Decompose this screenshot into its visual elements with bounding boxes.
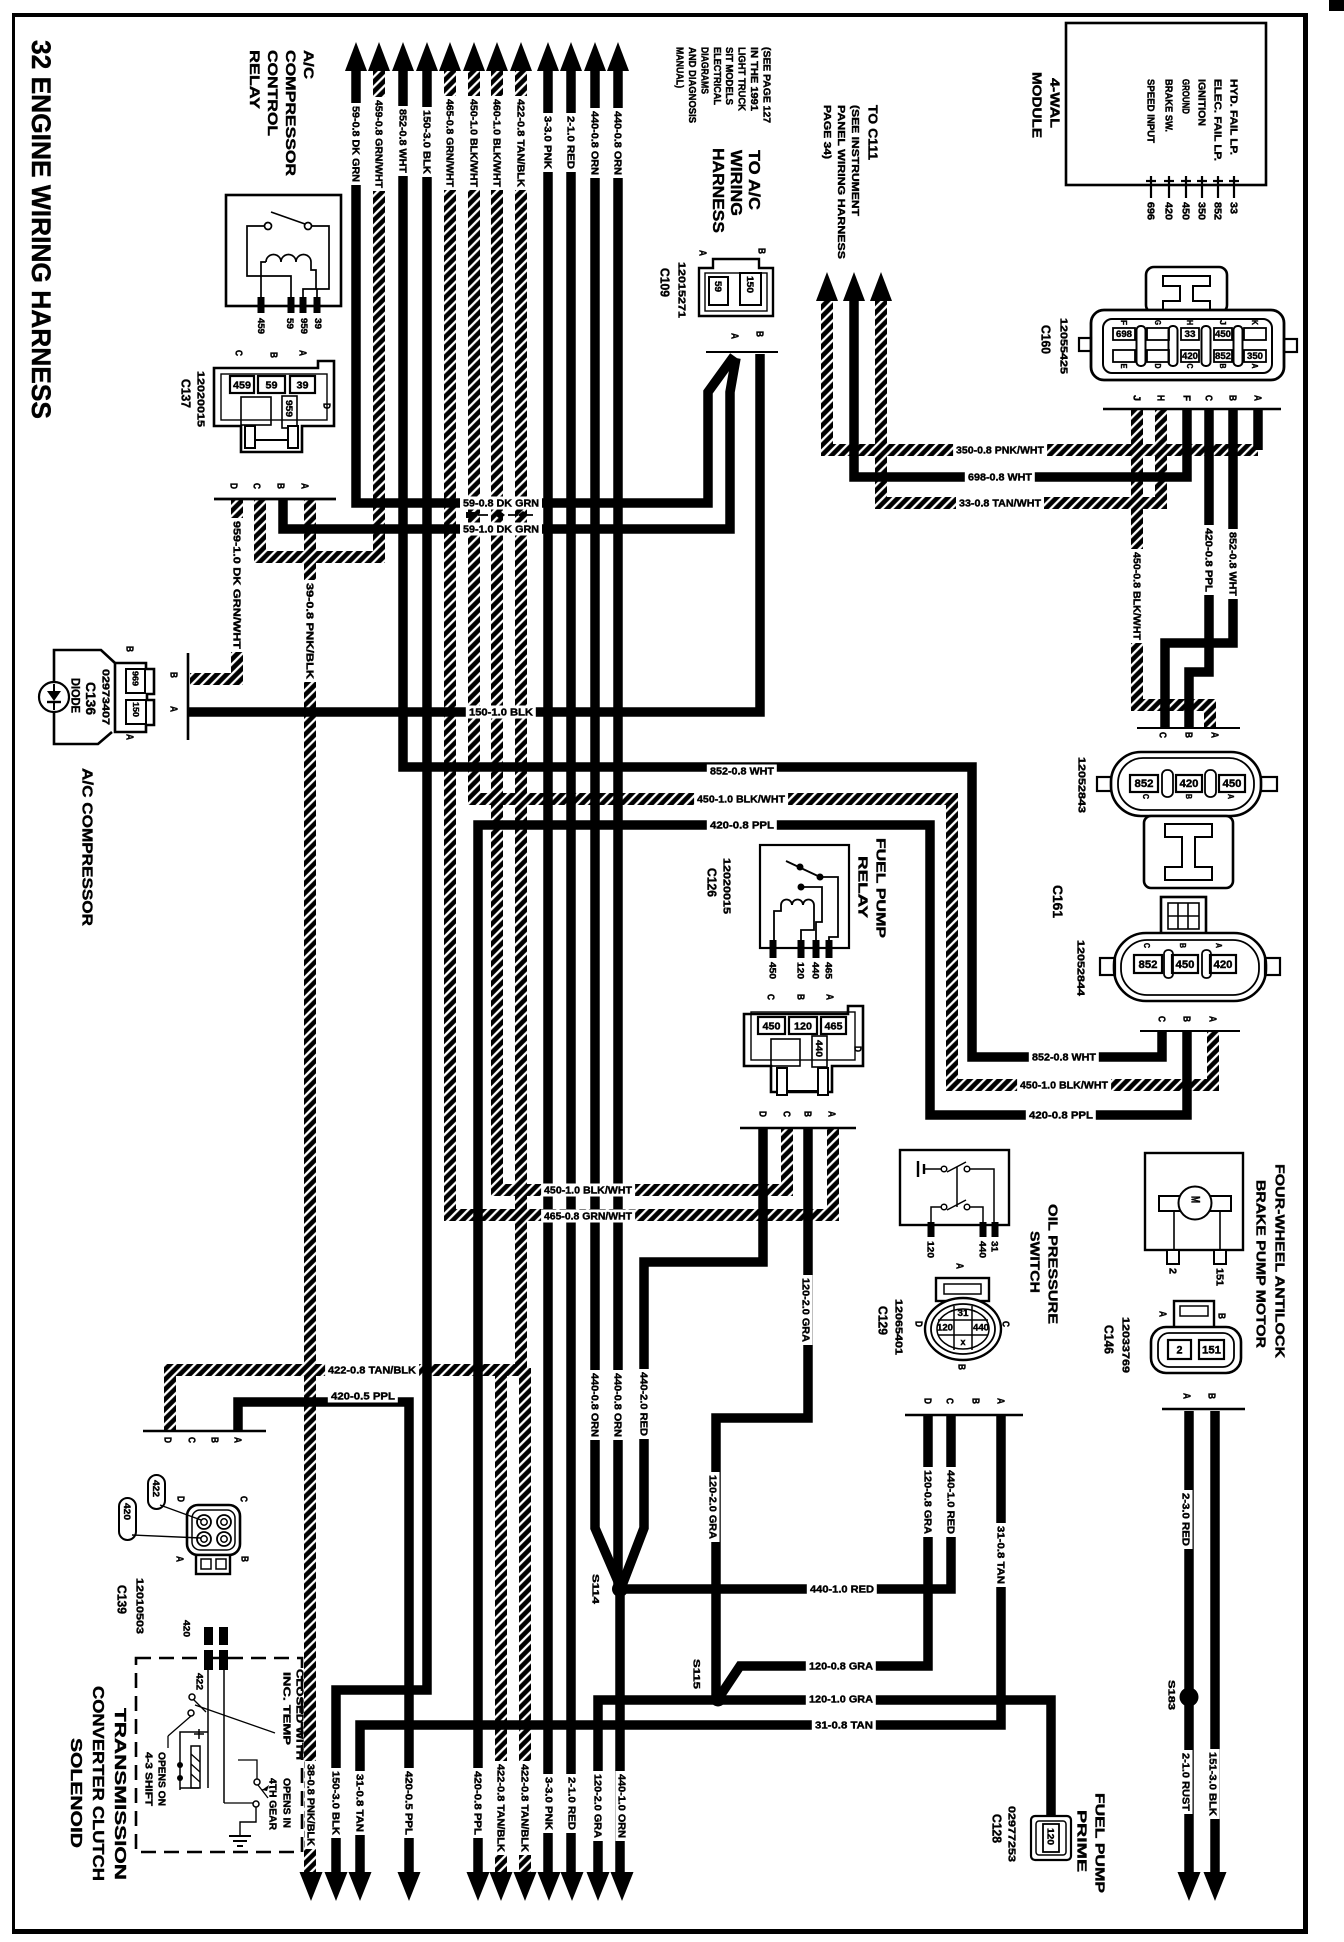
svg-text:12015271: 12015271 [675, 262, 686, 319]
svg-text:S183: S183 [1166, 1680, 1177, 1710]
svg-text:440: 440 [813, 1040, 824, 1057]
svg-text:59-0.8 DK GRN: 59-0.8 DK GRN [463, 499, 539, 510]
svg-text:C129: C129 [876, 1306, 890, 1335]
label 420-0.8 PPL on wire [1203, 525, 1216, 595]
C126 cavity 465 [821, 1017, 846, 1034]
svg-text:422-0.8 TAN/BLK: 422-0.8 TAN/BLK [494, 1764, 505, 1853]
C136 cavity 969 [126, 669, 145, 693]
wire 120-0.8 GRA S115 to C129 D [718, 1415, 928, 1699]
svg-text:A: A [167, 706, 178, 712]
svg-text:450: 450 [1215, 329, 1231, 339]
svg-text:959: 959 [283, 400, 294, 417]
svg-text:59: 59 [266, 379, 278, 391]
label 3-3.0 PNK on wire [543, 1774, 556, 1833]
relay pin stub 816 [813, 940, 820, 958]
svg-text:440-2.0 RED: 440-2.0 RED [637, 1372, 648, 1436]
C137 cavity 959 [282, 396, 297, 428]
svg-text:450: 450 [1176, 959, 1195, 971]
label 440-1.0 RED on wire [807, 1583, 877, 1596]
svg-text:12010503: 12010503 [133, 1578, 144, 1635]
connector C129 tab [936, 1278, 989, 1301]
wire 440-1.0 ORN to arrow [615, 1586, 625, 1876]
svg-text:465-0.8 GRN/WHT: 465-0.8 GRN/WHT [544, 1212, 632, 1223]
12052843 cavity 852 [1130, 775, 1158, 792]
svg-text:460-1.0 BLK/WHT: 460-1.0 BLK/WHT [490, 99, 501, 187]
svg-text:422: 422 [194, 1673, 205, 1690]
svg-text:C136: C136 [83, 682, 99, 715]
12052843 cavity 450 [1219, 775, 1245, 792]
svg-text:G: G [1153, 320, 1162, 325]
arrow up bus 12 [607, 42, 629, 71]
svg-text:D: D [1153, 364, 1162, 369]
pin tick 696 [1150, 176, 1152, 198]
C160 slot [1137, 326, 1146, 366]
C136 connector body [115, 663, 154, 732]
svg-text:A: A [123, 734, 134, 740]
wire 151-3.0 BLK [1210, 1411, 1220, 1876]
svg-text:350: 350 [1247, 351, 1263, 361]
connector 12052844 oval [1114, 933, 1266, 1001]
arrow up to C111 at x=854 [843, 272, 865, 301]
svg-text:B: B [1215, 1313, 1226, 1319]
arrow up bus 2 [368, 42, 390, 71]
svg-text:C126: C126 [705, 868, 719, 897]
relay fuel pump relay box [760, 845, 849, 948]
label 420-0.8 PPL on wire [472, 1768, 485, 1838]
svg-text:C146: C146 [1102, 1325, 1116, 1354]
svg-text:x: x [961, 1337, 966, 1347]
label 59-0.8 DK GRN on wire [460, 497, 542, 510]
svg-text:A: A [1250, 364, 1259, 369]
svg-text:IGNITION: IGNITION [1195, 79, 1206, 126]
label 3-3.0 PNK on wire [542, 113, 555, 172]
label 31-0.8 TAN on wire [995, 1523, 1008, 1587]
svg-text:ELEC. FAIL LP.: ELEC. FAIL LP. [1211, 79, 1222, 161]
svg-text:420-0.8 PPL: 420-0.8 PPL [1029, 1111, 1093, 1122]
svg-text:151: 151 [1213, 1268, 1224, 1286]
svg-text:B: B [1205, 1393, 1216, 1399]
wire 422-0.8 TAN/BLK branch [495, 1370, 507, 1876]
svg-text:31-0.8 TAN: 31-0.8 TAN [994, 1526, 1005, 1584]
svg-text:422-0.8 TAN/BLK: 422-0.8 TAN/BLK [514, 99, 525, 188]
label 440-0.8 ORN on wire [612, 1370, 625, 1440]
svg-text:B: B [238, 1556, 249, 1562]
wire 120-1.0 GRA S115 to fuel pump prime [598, 1700, 1051, 1876]
svg-text:C: C [1142, 943, 1152, 948]
svg-text:D: D [174, 1496, 185, 1502]
svg-text:852: 852 [1215, 351, 1231, 361]
C126 empty cavity [771, 1039, 800, 1066]
svg-text:12020015: 12020015 [720, 858, 731, 915]
svg-text:C: C [237, 1496, 248, 1502]
connector C126 body [744, 1006, 863, 1092]
pin tick 33 [1233, 176, 1235, 198]
arrow up to C111 at x=881 [870, 272, 892, 301]
svg-text:A: A [696, 250, 707, 256]
svg-text:698: 698 [1116, 329, 1132, 339]
svg-text:39: 39 [313, 318, 323, 329]
svg-text:D: D [921, 1398, 932, 1404]
svg-text:12020015: 12020015 [194, 371, 205, 428]
relay pin stub 801 [798, 940, 805, 958]
label 450-0.8 BLK/WHT on wire [1131, 549, 1144, 643]
label 150-1.0 BLK on wire [466, 706, 536, 719]
svg-text:B: B [755, 248, 766, 254]
relay pin stub 773 [770, 940, 777, 958]
svg-text:852: 852 [1135, 778, 1154, 790]
svg-text:C: C [780, 1111, 791, 1117]
C137 cavity 39 [290, 376, 315, 393]
svg-text:C128: C128 [990, 1814, 1004, 1843]
C137 cavity 459 [230, 376, 254, 393]
label 2-1.0 RED on wire [566, 1774, 579, 1833]
arrow down at x=525 [514, 1872, 537, 1901]
svg-text:D: D [851, 1046, 862, 1052]
svg-text:150-1.0 BLK: 150-1.0 BLK [469, 708, 534, 719]
svg-text:02977253: 02977253 [1005, 1806, 1016, 1863]
C126 terminal bar [740, 1127, 856, 1130]
svg-text:WIRING: WIRING [727, 150, 744, 216]
C109 cavity 59 [709, 277, 728, 305]
connector C139 icon [187, 1505, 240, 1555]
svg-text:A: A [825, 1111, 836, 1117]
svg-text:C109: C109 [658, 268, 672, 297]
svg-text:B: B [1182, 732, 1193, 738]
label 151-3.0 BLK on wire [1207, 1749, 1220, 1819]
svg-text:A: A [1206, 1016, 1217, 1022]
svg-text:SOLENOID: SOLENOID [67, 1738, 84, 1848]
wire 420-0.8 PPL C160 C to C161 B [1189, 409, 1209, 727]
label 420-0.5 PPL on wire [328, 1390, 398, 1403]
wire 420-0.8 PPL C161 B to bottom arrow [478, 825, 1187, 1876]
12052843 cavity 420 [1176, 775, 1202, 792]
svg-text:A: A [1214, 943, 1224, 948]
svg-text:PANEL WIRING HARNESS: PANEL WIRING HARNESS [835, 105, 847, 259]
wire 959-1.0 DK GRN/WHT C137 D to C136 B [190, 499, 237, 679]
svg-text:ELECTRICAL: ELECTRICAL [711, 47, 722, 105]
svg-text:J: J [1218, 320, 1227, 325]
wire 150-3.0 BLK bus [336, 62, 427, 1876]
svg-text:D: D [756, 1111, 767, 1117]
arrow down at x=572 [561, 1872, 584, 1901]
svg-text:B: B [1226, 395, 1237, 401]
connector C160 main body [1091, 310, 1284, 380]
svg-text:02973407: 02973407 [99, 669, 110, 726]
svg-text:852-0.8 WHT: 852-0.8 WHT [1032, 1053, 1096, 1064]
label 450-1.0 BLK/WHT on wire [694, 793, 788, 806]
svg-text:32 ENGINE WIRING HARNESS: 32 ENGINE WIRING HARNESS [26, 40, 56, 419]
C137 cavity 59 [258, 376, 285, 393]
C126 cavity 450 [758, 1017, 785, 1034]
C160 cavity 350 [1244, 350, 1266, 362]
svg-text:420: 420 [1182, 351, 1198, 361]
svg-text:150-3.0 BLK: 150-3.0 BLK [329, 1771, 340, 1836]
callout 422 oval [148, 1475, 165, 1509]
wire 465-0.8 GRN/WHT bus to relay A [450, 62, 833, 1215]
svg-text:450-0.8 BLK/WHT: 450-0.8 BLK/WHT [1130, 552, 1141, 640]
arrow up bus 3 [392, 42, 414, 71]
svg-text:420: 420 [121, 1503, 132, 1520]
label 465-0.8 GRN/WHT on wire [541, 1210, 635, 1223]
svg-text:HARNESS: HARNESS [709, 148, 726, 233]
arrow up bus 11 [584, 42, 606, 71]
svg-text:C: C [943, 1398, 954, 1404]
svg-text:151-3.0 BLK: 151-3.0 BLK [1206, 1752, 1217, 1817]
svg-text:852: 852 [1211, 202, 1222, 220]
wire 440-2.0 RED from relay D to S114 [621, 1128, 763, 1588]
wire 120-2.0 GRA relay B to S115 [716, 1128, 808, 1699]
svg-text:FUEL PUMP: FUEL PUMP [1092, 1793, 1107, 1893]
svg-text:420-0.8 PPL: 420-0.8 PPL [1202, 528, 1213, 592]
C161 terminal bar upper [1137, 727, 1240, 729]
svg-text:120: 120 [925, 1241, 936, 1258]
svg-text:959-1.0 DK GRN/WHT: 959-1.0 DK GRN/WHT [230, 521, 241, 649]
svg-text:C: C [250, 483, 261, 489]
motor pin stubs [1167, 1250, 1179, 1264]
relay pin stub 291 [288, 297, 295, 313]
svg-text:A: A [231, 1437, 242, 1443]
12052844 cavity 450 [1172, 955, 1198, 973]
label 59-1.0 DK GRN on wire [460, 523, 542, 536]
svg-text:C137: C137 [179, 379, 193, 408]
C160 cavity empty [1244, 328, 1266, 340]
label 2-1.0 RUST on wire [1180, 1750, 1193, 1814]
label 440-0.8 ORN on wire [612, 108, 625, 178]
svg-text:440: 440 [810, 962, 821, 979]
pin tick 450 [1185, 176, 1187, 198]
svg-text:59-0.8 DK GRN: 59-0.8 DK GRN [349, 106, 360, 182]
svg-text:A: A [728, 333, 739, 339]
svg-text:12065401: 12065401 [892, 1299, 903, 1356]
label 120-0.8 GRA on wire [806, 1660, 876, 1673]
label 460-1.0 BLK/WHT on wire [491, 96, 504, 190]
svg-text:422-0.8 TAN/BLK: 422-0.8 TAN/BLK [518, 1764, 529, 1853]
arrow up bus 6 [463, 42, 485, 71]
svg-text:BRAKE PUMP MOTOR: BRAKE PUMP MOTOR [1253, 1180, 1268, 1349]
svg-text:A: A [173, 1556, 184, 1562]
box transmission converter clutch solenoid (dashed) [136, 1658, 302, 1852]
svg-text:C: C [232, 350, 243, 356]
svg-text:150: 150 [131, 702, 141, 717]
svg-text:120-1.0 GRA: 120-1.0 GRA [809, 1695, 873, 1706]
label 420-0.5 PPL on wire [403, 1768, 416, 1838]
label 422-0.8 TAN/BLK on wire [495, 1761, 508, 1855]
svg-text:D: D [161, 1437, 172, 1443]
svg-text:H: H [1154, 395, 1165, 401]
label 120-0.8 GRA on wire [922, 1467, 935, 1537]
svg-text:350: 350 [1195, 202, 1206, 220]
label 31-0.8 TAN on wire [812, 1719, 876, 1732]
svg-text:B: B [123, 646, 134, 652]
svg-text:31: 31 [989, 1241, 1000, 1253]
splice S115 junction dot [711, 1692, 726, 1707]
svg-text:440-0.8 ORN: 440-0.8 ORN [588, 1373, 599, 1437]
svg-text:120: 120 [795, 962, 806, 979]
svg-text:420: 420 [181, 1620, 192, 1637]
svg-text:MODULE: MODULE [1029, 72, 1044, 138]
svg-text:B: B [274, 483, 285, 489]
svg-text:PRIME: PRIME [1074, 1810, 1089, 1872]
wire 3-3.0 PNK bus [543, 62, 553, 1876]
C139 bottom tab [196, 1555, 230, 1574]
arrow down at x=478 [467, 1872, 490, 1901]
svg-text:A: A [994, 1398, 1005, 1404]
svg-text:120-0.8 GRA: 120-0.8 GRA [921, 1470, 932, 1534]
connector 12052843 oval [1111, 752, 1261, 816]
label 450-1.0 BLK/WHT on wire [468, 96, 481, 190]
svg-text:S115: S115 [691, 1659, 702, 1690]
C160 cavity empty [1147, 350, 1169, 362]
svg-text:150-3.0 BLK: 150-3.0 BLK [420, 110, 431, 175]
svg-text:A: A [296, 350, 307, 356]
svg-text:DIODE: DIODE [69, 678, 83, 713]
svg-text:AND DIAGNOSIS: AND DIAGNOSIS [686, 47, 697, 123]
svg-text:B: B [969, 1398, 980, 1404]
wire 460-1.0 BLK/WHT bus to relay C [497, 62, 787, 1190]
pin tick 420 [1168, 176, 1170, 198]
svg-text:12033769: 12033769 [1119, 1317, 1130, 1374]
svg-text:465: 465 [825, 1020, 843, 1032]
label 450-1.0 BLK/WHT on wire [541, 1184, 635, 1197]
svg-text:TO C111: TO C111 [866, 105, 880, 160]
svg-text:31-0.8 TAN: 31-0.8 TAN [815, 1721, 873, 1732]
svg-text:422-0.8 TAN/BLK: 422-0.8 TAN/BLK [328, 1366, 417, 1377]
connector C146 tab [1174, 1301, 1214, 1329]
label 440-0.8 ORN on wire [589, 108, 602, 178]
arrow down at x=336 [325, 1872, 348, 1901]
svg-text:2-1.0 RED: 2-1.0 RED [564, 116, 575, 169]
svg-text:B: B [753, 331, 764, 337]
relay pin stub 261 [258, 297, 265, 313]
motor M circle [1179, 1187, 1212, 1220]
label 422-0.8 TAN/BLK on wire [325, 1364, 419, 1377]
wire 350-0.8 PNK/WHT stub at C160 A [1253, 409, 1263, 450]
svg-text:A: A [823, 994, 834, 1000]
C160 cavity empty [1113, 350, 1135, 362]
arrow up bus 7 [486, 42, 508, 71]
svg-text:A/C: A/C [301, 50, 317, 79]
svg-text:DIAGRAMS: DIAGRAMS [698, 47, 709, 94]
svg-text:B: B [955, 1364, 966, 1370]
label 120-2.0 GRA on wire [592, 1771, 605, 1841]
relay pin stub 317 [314, 297, 321, 313]
svg-text:E: E [1119, 364, 1128, 370]
svg-text:33: 33 [1185, 329, 1196, 339]
relay A/C compressor control relay box [226, 195, 341, 306]
svg-text:440-1.0 ORN: 440-1.0 ORN [615, 1774, 626, 1838]
TCC switch opens in 4th gear [254, 1779, 260, 1785]
svg-text:31-0.8 TAN: 31-0.8 TAN [353, 1774, 364, 1832]
label 120-1.0 GRA on wire [806, 1693, 876, 1706]
svg-text:B: B [208, 1437, 219, 1443]
svg-text:F: F [1180, 395, 1191, 401]
svg-text:2-1.0 RUST: 2-1.0 RUST [1179, 1753, 1190, 1811]
svg-text:2: 2 [1177, 1345, 1183, 1357]
label 150-3.0 BLK on wire [421, 107, 434, 177]
C137 empty cavity [241, 397, 271, 425]
svg-text:SWITCH: SWITCH [1027, 1231, 1042, 1293]
svg-text:420-0.5 PPL: 420-0.5 PPL [331, 1392, 395, 1403]
wire 33-0.8 TAN/WHT arrow to C160 H [881, 300, 1161, 503]
svg-text:696: 696 [1144, 202, 1155, 220]
svg-text:A/C COMPRESSOR: A/C COMPRESSOR [79, 768, 96, 926]
svg-text:450: 450 [763, 1020, 781, 1032]
svg-text:120-2.0 GRA: 120-2.0 GRA [706, 1475, 717, 1539]
C160 cavity 852 [1214, 350, 1232, 362]
svg-text:B: B [1178, 943, 1188, 948]
svg-text:420-0.8 PPL: 420-0.8 PPL [710, 821, 774, 832]
TCC 422 stub [219, 1627, 228, 1645]
wire 150-1.0 BLK from C136 A to C109 B [188, 354, 760, 712]
svg-text:C: C [764, 994, 775, 1000]
svg-text:420-0.5 PPL: 420-0.5 PPL [402, 1771, 413, 1835]
arrow up bus 5 [439, 42, 461, 71]
svg-text:HYD. FAIL LP.: HYD. FAIL LP. [1227, 79, 1238, 155]
svg-text:B: B [801, 1111, 812, 1117]
arrow down at x=1189 [1178, 1872, 1201, 1901]
svg-text:120: 120 [937, 1323, 953, 1333]
label 852-0.8 WHT on wire [1029, 1051, 1099, 1064]
svg-text:420: 420 [1162, 202, 1173, 220]
svg-text:120-2.0 GRA: 120-2.0 GRA [799, 1278, 810, 1342]
svg-text:120: 120 [794, 1020, 812, 1032]
svg-text:12052844: 12052844 [1074, 940, 1085, 997]
svg-text:FOUR-WHEEL ANTILOCK: FOUR-WHEEL ANTILOCK [1272, 1164, 1287, 1359]
label 422-0.8 TAN/BLK on wire [515, 96, 528, 190]
label 420-0.8 PPL on wire [1026, 1109, 1096, 1122]
C160 cavity 420 [1181, 350, 1199, 362]
svg-text:440: 440 [977, 1241, 988, 1258]
svg-text:440-0.8 ORN: 440-0.8 ORN [588, 111, 599, 175]
wire 39/38-0.8 PNK/BLK C137 A to bottom [304, 499, 316, 1876]
svg-text:D: D [912, 1321, 923, 1327]
svg-text:IN THE 1991: IN THE 1991 [748, 47, 759, 111]
arrow down at x=360 [349, 1872, 372, 1901]
relay pin stub 303 [300, 297, 307, 313]
svg-text:969: 969 [130, 671, 140, 686]
svg-text:D: D [320, 403, 331, 409]
svg-text:(SEE PAGE 127: (SEE PAGE 127 [760, 47, 771, 123]
label 420-0.8 PPL on wire [707, 819, 777, 832]
C160 slot [1202, 326, 1211, 366]
svg-text:852-0.8 WHT: 852-0.8 WHT [1226, 532, 1237, 596]
svg-text:C139: C139 [115, 1585, 129, 1614]
relay pin stub 829 [826, 940, 833, 958]
svg-text:B: B [167, 672, 178, 678]
C160 cavity 450 [1214, 328, 1232, 340]
svg-text:A: A [1156, 1311, 1167, 1317]
label 440-1.0 RED on wire [945, 1467, 958, 1537]
svg-text:SIT MODELS: SIT MODELS [723, 47, 734, 105]
connector 12052844 tab [1161, 897, 1206, 935]
C161 middle piece [1144, 816, 1233, 888]
svg-text:CONVERTER CLUTCH: CONVERTER CLUTCH [89, 1686, 106, 1881]
label 440-0.8 ORN on wire [589, 1370, 602, 1440]
svg-text:120: 120 [1045, 1828, 1056, 1845]
svg-text:C: C [1185, 364, 1194, 369]
svg-text:3-3.0 PNK: 3-3.0 PNK [542, 1777, 553, 1831]
C160 cavity 33 [1181, 328, 1199, 340]
svg-text:420: 420 [1214, 959, 1233, 971]
svg-text:2: 2 [1166, 1268, 1177, 1274]
svg-text:C: C [1155, 1016, 1166, 1022]
12052844 cavity 852 [1134, 955, 1162, 973]
svg-text:OPENS IN: OPENS IN [280, 1778, 291, 1828]
svg-text:GROUND: GROUND [1179, 79, 1190, 114]
TCC internal wiring [207, 1670, 209, 1788]
arrow up bus 8 [510, 42, 532, 71]
svg-text:440: 440 [973, 1323, 989, 1333]
